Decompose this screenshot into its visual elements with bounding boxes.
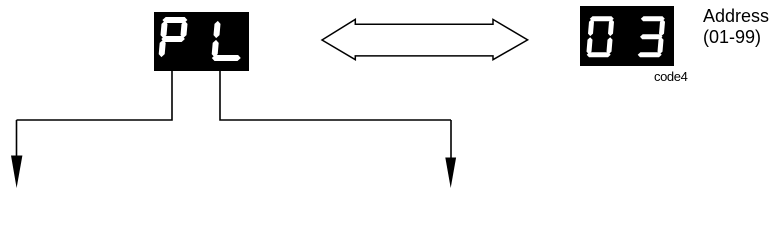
wire from PL box left pin xyxy=(17,71,173,120)
display box 03 xyxy=(580,6,674,66)
seven-segment letter L xyxy=(212,21,241,61)
seven-segment digit 3 xyxy=(638,16,665,57)
wire from PL box right pin xyxy=(220,71,451,120)
label code4 xyxy=(654,69,687,84)
display box PL xyxy=(154,12,249,71)
label Address (01-99) xyxy=(703,6,769,48)
seven-segment digit 0 xyxy=(587,16,615,57)
arrowhead right xyxy=(445,158,456,189)
arrowhead left xyxy=(11,156,22,189)
double-headed arrow xyxy=(322,19,528,59)
seven-segment letter P xyxy=(159,17,188,57)
wire left drop xyxy=(16,120,18,162)
wire right drop xyxy=(450,120,452,164)
